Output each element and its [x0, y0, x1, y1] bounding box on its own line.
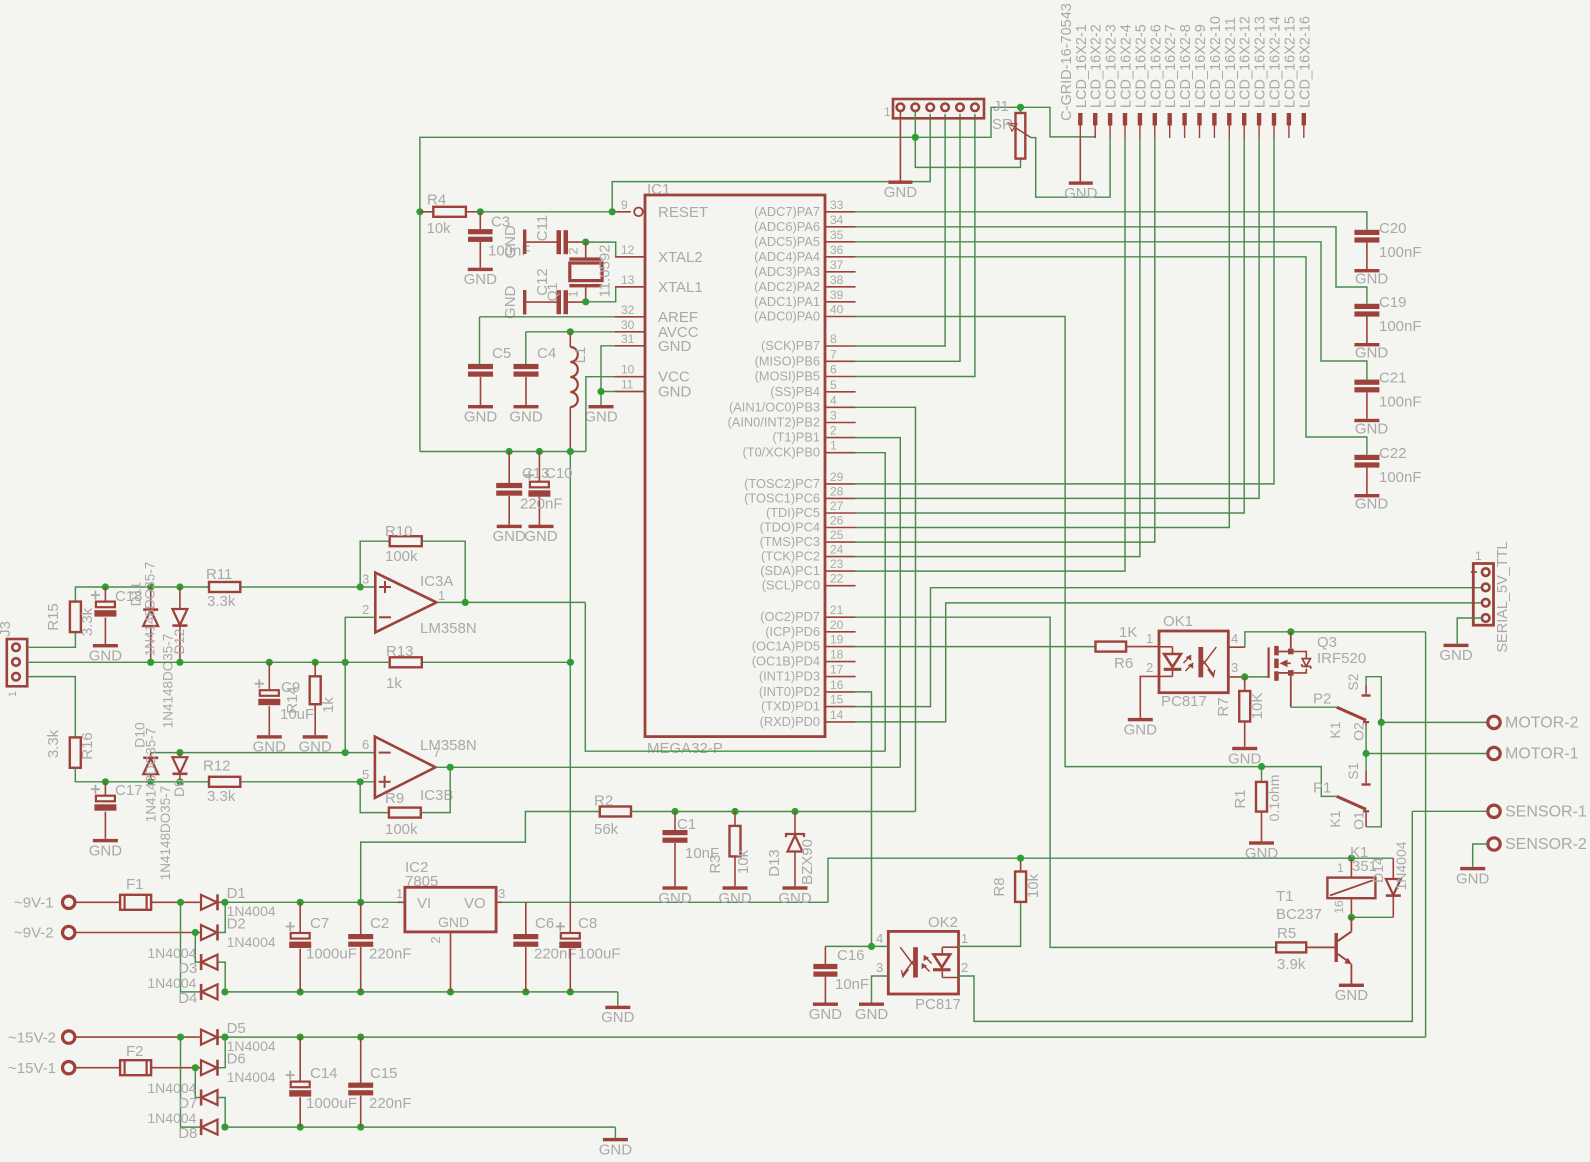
node J1 pin2 junction [912, 134, 919, 141]
svg-text:J3: J3 [0, 621, 14, 637]
svg-text:GND: GND [502, 225, 519, 258]
capacitor C10 (polarized) [520, 452, 573, 525]
node GND pins junction [597, 388, 604, 395]
wire PC6 net to LCD pin13 [856, 138, 1260, 498]
svg-text:3: 3 [1231, 660, 1238, 675]
svg-text:4: 4 [1231, 631, 1238, 646]
capacitor C17 (polarized) [91, 782, 143, 839]
svg-text:PC817: PC817 [915, 996, 961, 1013]
diode D3 [147, 945, 225, 992]
wire PD1 TXD net to serial pin2 [856, 588, 1482, 707]
capacitor C1 [663, 812, 720, 887]
node VCC junction at R4 left [416, 208, 423, 215]
node crystal top junction [582, 239, 589, 246]
svg-text:1: 1 [830, 439, 837, 453]
wire OK2 pin4 row [825, 945, 888, 947]
svg-text:(TXD)PD1: (TXD)PD1 [761, 699, 820, 714]
wire AVCC net [526, 332, 645, 364]
svg-text:27: 27 [830, 499, 844, 513]
capacitor C12 with rotated ground [502, 268, 586, 319]
svg-text:100k: 100k [385, 821, 418, 838]
wire PD5 net to R6 [856, 646, 1096, 648]
svg-text:(SS)PB4: (SS)PB4 [770, 384, 820, 399]
connector J3 input [0, 621, 27, 697]
svg-text:C7: C7 [310, 915, 329, 932]
terminal ~15V-1 [8, 1060, 120, 1077]
svg-text:F1: F1 [126, 876, 144, 893]
svg-text:OK1: OK1 [1163, 613, 1193, 630]
svg-text:R15: R15 [45, 603, 62, 631]
wire AREF net [480, 317, 646, 364]
svg-text:(TOSC1)PC6: (TOSC1)PC6 [744, 490, 820, 505]
node Q3 drain junction [1287, 628, 1294, 635]
wire VCC net top loop (R4 left to J1/SR/LCD pin2) [420, 107, 1095, 212]
label D9 value [158, 786, 173, 881]
wire OK2 pin3 to ground [872, 976, 889, 1003]
svg-text:1k: 1k [386, 675, 402, 692]
svg-text:9: 9 [621, 198, 628, 212]
ground under C17 [89, 839, 123, 860]
svg-text:F2: F2 [126, 1043, 144, 1060]
svg-text:IRF520: IRF520 [1317, 650, 1366, 667]
node mid rail D11 [147, 659, 154, 666]
svg-text:2: 2 [830, 424, 837, 438]
relay coil K1 [1327, 844, 1377, 917]
node bridge2 AC1 [177, 1034, 184, 1041]
svg-text:R2: R2 [594, 793, 613, 810]
wire MOTOR-2 [1381, 721, 1487, 723]
svg-text:LM358N: LM358N [420, 620, 477, 637]
svg-text:LCD_16X2-10: LCD_16X2-10 [1208, 16, 1224, 108]
svg-text:1N4148DO35-7: 1N4148DO35-7 [158, 786, 173, 881]
svg-text:(SCL)PC0: (SCL)PC0 [762, 578, 820, 593]
svg-text:LCD_16X2-3: LCD_16X2-3 [1104, 24, 1120, 108]
svg-text:R7: R7 [1215, 697, 1232, 716]
node mid rail C9 [266, 659, 273, 666]
svg-text:(TDI)PC5: (TDI)PC5 [766, 505, 820, 520]
svg-text:LCD_16X2-2: LCD_16X2-2 [1089, 24, 1105, 108]
node IC3A plus node [0, 0, 1, 1]
svg-text:1: 1 [7, 691, 19, 697]
svg-text:L1: L1 [572, 347, 589, 364]
svg-text:3.9k: 3.9k [1277, 956, 1306, 973]
svg-text:10: 10 [621, 363, 635, 377]
node lower rail D9 [176, 778, 183, 785]
svg-text:GND: GND [658, 338, 692, 355]
svg-text:19: 19 [830, 633, 844, 647]
svg-text:1N4004: 1N4004 [227, 1069, 276, 1085]
svg-text:LCD_16X2-6: LCD_16X2-6 [1148, 24, 1164, 108]
wire ISP RESET branch (J1 pin3 to RESET) [612, 114, 930, 212]
wire VCC decoupling rail [420, 451, 586, 453]
svg-text:(OC2)PD7: (OC2)PD7 [760, 609, 820, 624]
svg-text:T1: T1 [1276, 888, 1294, 905]
svg-text:3.3k: 3.3k [45, 729, 62, 758]
svg-text:1N4004: 1N4004 [147, 945, 196, 961]
svg-text:10k: 10k [735, 849, 752, 874]
node bridge AC1 [177, 899, 184, 906]
node RESET junction at C3 [477, 208, 484, 215]
capacitor C13 [496, 452, 549, 525]
ground under J1 pin1 [884, 181, 918, 202]
svg-text:1N4004: 1N4004 [227, 934, 276, 950]
resistor R12 [203, 758, 240, 805]
svg-text:(RXD)PD0: (RXD)PD0 [760, 714, 820, 729]
ground under LCD pin1 [1064, 181, 1098, 202]
wire F2 to bridge [151, 1067, 201, 1069]
svg-text:LCD_16X2-13: LCD_16X2-13 [1253, 16, 1269, 108]
ground under C22 [1354, 494, 1388, 513]
node R8 top junction [1017, 855, 1024, 862]
svg-text:D5: D5 [227, 1020, 246, 1037]
svg-text:1K: 1K [1119, 624, 1137, 641]
svg-text:GND: GND [718, 890, 752, 907]
svg-text:SERIAL_5V_TTL: SERIAL_5V_TTL [1495, 541, 1511, 652]
potentiometer SR [992, 107, 1031, 158]
svg-text:(TCK)PC2: (TCK)PC2 [761, 549, 820, 564]
wire VCC rail down to 5V net at C8 [569, 452, 571, 903]
node IC3A output junction [462, 599, 469, 606]
wire PA7 net to C20 [856, 212, 1367, 230]
node rail C13 [506, 448, 513, 455]
capacitor C2 [348, 902, 411, 992]
svg-text:GND: GND [509, 409, 543, 426]
terminal SENSOR-2 [1473, 836, 1587, 867]
svg-text:8: 8 [830, 332, 837, 346]
svg-text:BZX90: BZX90 [799, 839, 816, 885]
svg-text:(ADC3)PA3: (ADC3)PA3 [754, 264, 820, 279]
svg-text:O1: O1 [1350, 811, 1366, 830]
wire S2 to crossover [1366, 677, 1381, 827]
svg-text:1k: 1k [320, 697, 337, 713]
wire 5V rail [502, 858, 1351, 902]
ground under C19 [1354, 343, 1388, 362]
capacitor C18 (polarized) [91, 587, 143, 644]
svg-text:GND: GND [1245, 845, 1279, 862]
svg-text:LCD_16X2-16: LCD_16X2-16 [1297, 16, 1313, 108]
svg-text:34: 34 [830, 213, 844, 227]
svg-text:(ADC0)PA0: (ADC0)PA0 [754, 309, 820, 324]
svg-text:(TDO)PC4: (TDO)PC4 [760, 520, 820, 535]
diode D14 [1370, 841, 1409, 917]
wire PB7 net to J1 SCK [856, 114, 946, 346]
svg-text:7805: 7805 [405, 873, 438, 890]
resistor R5 [1276, 925, 1306, 973]
wire bridge AC2 vertical [195, 933, 200, 963]
svg-text:3.3k: 3.3k [207, 788, 236, 805]
svg-text:GND: GND [1228, 750, 1262, 767]
ground under C13 [493, 525, 527, 546]
relay contact K1 upper (P2/S2/O2) [1313, 673, 1371, 741]
svg-text:(ADC6)PA6: (ADC6)PA6 [754, 219, 820, 234]
svg-text:28: 28 [830, 484, 844, 498]
svg-text:C8: C8 [578, 915, 597, 932]
resistor R6 [1096, 624, 1160, 672]
svg-text:C14: C14 [310, 1065, 338, 1082]
resistor R7 [1215, 677, 1266, 747]
wire J1 pin2 net with SR bottom [915, 111, 1020, 167]
svg-text:C22: C22 [1379, 445, 1407, 462]
svg-text:3: 3 [362, 572, 369, 587]
svg-text:25: 25 [830, 528, 844, 542]
svg-text:14: 14 [830, 708, 844, 722]
svg-text:(ADC5)PA5: (ADC5)PA5 [754, 234, 820, 249]
svg-text:6: 6 [362, 737, 369, 752]
wire XTAL1 net [586, 287, 645, 302]
wire LCD pin1 to ground [1079, 138, 1081, 181]
capacitor C20 [1354, 220, 1421, 269]
svg-text:39: 39 [830, 288, 844, 302]
diode D2 [201, 902, 276, 950]
fuse F2 [120, 1043, 151, 1075]
svg-text:100nF: 100nF [1379, 318, 1422, 335]
svg-text:GND: GND [658, 384, 692, 401]
svg-text:LM358N: LM358N [420, 737, 477, 754]
wire PC3 net to LCD pin6 [856, 138, 1155, 542]
capacitor C19 [1354, 294, 1421, 343]
ground main 9V rail [601, 1006, 635, 1026]
resistor R11 [206, 566, 240, 610]
node gnd rail C2 [357, 988, 364, 995]
svg-text:R16: R16 [79, 732, 96, 760]
wire serial pin4 to ground [1457, 618, 1481, 644]
node gnd rail C7 [297, 988, 304, 995]
wire OK1 pin3 to gate [1228, 676, 1267, 678]
svg-text:6: 6 [830, 363, 837, 377]
svg-text:GND: GND [809, 1006, 843, 1023]
ground under C16 [809, 1003, 843, 1024]
svg-text:1: 1 [438, 588, 445, 603]
wire PB6 net to J1 MISO [856, 114, 960, 361]
label D10 value [144, 728, 159, 823]
capacitor C9 (polarized) [255, 662, 314, 735]
label C-GRID-16-70543 [1059, 3, 1075, 121]
svg-text:BC237: BC237 [1276, 906, 1322, 923]
wire PC1 net to LCD pin4 [856, 138, 1125, 571]
terminal MOTOR-1 [1488, 746, 1579, 763]
svg-text:11.0592: 11.0592 [597, 244, 614, 297]
svg-text:GND: GND [855, 1006, 889, 1023]
wire J1 pin1 to ground [899, 111, 901, 181]
svg-text:R8: R8 [991, 877, 1008, 896]
wire RESET net (R4 right to IC1 pin 9) [480, 211, 631, 213]
node SR top junction [1017, 104, 1024, 111]
wire PB1 net from IC3B output [856, 438, 901, 768]
node crystal bottom junction [582, 298, 589, 305]
node mid rail op-amp inputs [342, 659, 349, 666]
wire PD0 RXD net to serial pin3 [856, 603, 1482, 722]
node motor2 junction [1378, 719, 1385, 726]
svg-text:1000uF: 1000uF [306, 1095, 357, 1112]
svg-text:C15: C15 [370, 1065, 398, 1082]
svg-text:(ADC1)PA1: (ADC1)PA1 [754, 294, 820, 309]
node 15V rail C15 [357, 1034, 364, 1041]
node motor1 junction [1363, 750, 1370, 757]
wire D10/D9 top rail [151, 752, 375, 754]
capacitor C16 [813, 946, 869, 1002]
labels LCD_16X2 pin names [1074, 16, 1314, 108]
node plus rail C7 [297, 899, 304, 906]
resistor R3 [707, 812, 752, 887]
svg-text:GND: GND [502, 285, 519, 319]
wire R2 net from unregulated rail [361, 812, 600, 903]
svg-text:2: 2 [428, 936, 443, 943]
svg-text:R13: R13 [386, 643, 414, 660]
inductor L1 [570, 332, 589, 452]
node lower rail C17 [102, 778, 109, 785]
transistor T1 BC237 [1276, 888, 1352, 984]
svg-text:S1: S1 [1345, 762, 1361, 779]
svg-text:LCD_16X2-15: LCD_16X2-15 [1282, 16, 1298, 108]
label D12 value [161, 634, 176, 729]
svg-text:100nF: 100nF [1379, 394, 1422, 411]
svg-text:VO: VO [464, 895, 486, 912]
svg-text:13: 13 [621, 273, 635, 287]
resistor R14 [284, 662, 337, 735]
node gnd rail C8 [567, 988, 574, 995]
capacitor C22 [1354, 445, 1421, 494]
svg-text:J1: J1 [993, 98, 1009, 115]
svg-text:0.1ohm: 0.1ohm [1266, 775, 1282, 822]
svg-text:C20: C20 [1379, 220, 1407, 237]
node bridge AC2 [192, 929, 199, 936]
svg-text:(OC1B)PD4: (OC1B)PD4 [752, 654, 820, 669]
wire PB0 net from IC3A output [856, 453, 886, 752]
node OK2 pin4 junction [868, 943, 875, 950]
wire PC4 net to LCD pin11 [856, 138, 1230, 528]
svg-text:10K: 10K [1249, 693, 1266, 720]
wire PB5 net to J1 MOSI [856, 114, 975, 377]
resistor R15 [45, 602, 96, 637]
svg-text:10k: 10k [427, 220, 452, 237]
wire VCC left vertical down to decoupling rail [419, 212, 421, 452]
svg-text:2: 2 [961, 960, 968, 975]
ground under C3 [464, 268, 498, 289]
svg-text:LCD_16X2-7: LCD_16X2-7 [1163, 24, 1179, 108]
ground under R1 [1245, 841, 1279, 862]
svg-text:17: 17 [830, 663, 844, 677]
svg-text:MEGA32-P: MEGA32-P [647, 740, 723, 757]
svg-text:20: 20 [830, 618, 844, 632]
ground under R3 [718, 886, 752, 907]
svg-text:MOTOR-2: MOTOR-2 [1505, 715, 1579, 732]
svg-text:3: 3 [876, 960, 883, 975]
svg-text:1: 1 [1475, 549, 1482, 563]
svg-text:GND: GND [1335, 987, 1369, 1004]
terminal SENSOR-1 [1488, 804, 1587, 821]
svg-text:(ADC2)PA2: (ADC2)PA2 [754, 279, 820, 294]
svg-text:MOTOR-1: MOTOR-1 [1505, 746, 1579, 763]
wire PA5 net to C21 [856, 242, 1367, 380]
wire bridge AC1 vertical [181, 902, 200, 992]
svg-text:GND: GND [1355, 420, 1389, 437]
wire PA0 net to current sense R1 [856, 317, 1337, 797]
ground under OK2 pin3 [855, 1003, 889, 1024]
svg-text:1: 1 [396, 886, 403, 901]
node bridge2 plus [221, 1034, 228, 1041]
node op-amp A plus junction [357, 583, 364, 590]
svg-text:5: 5 [830, 378, 837, 392]
svg-text:P1: P1 [1313, 780, 1331, 797]
svg-text:P2: P2 [1313, 691, 1331, 708]
resistor R8 [991, 858, 1042, 902]
svg-text:GND: GND [1456, 870, 1490, 887]
svg-text:C1: C1 [677, 816, 696, 833]
svg-text:R4: R4 [427, 192, 446, 209]
node divider D13 [791, 808, 798, 815]
node lower rail D10 [147, 778, 154, 785]
svg-text:(MOSI)PB5: (MOSI)PB5 [755, 369, 820, 384]
wire 15V rail to relay [225, 632, 1426, 1037]
svg-text:3: 3 [498, 886, 505, 901]
svg-text:1N4004: 1N4004 [147, 1110, 196, 1126]
svg-text:C21: C21 [1379, 370, 1407, 387]
svg-text:IC3B: IC3B [420, 787, 453, 804]
svg-text:21: 21 [830, 603, 844, 617]
svg-text:56k: 56k [594, 821, 619, 838]
node T1 collector junction [1348, 914, 1355, 921]
ground under R7 [1228, 747, 1262, 768]
svg-text:26: 26 [830, 514, 844, 528]
node bridge2 AC2 [192, 1064, 199, 1071]
svg-text:C-GRID-16-70543: C-GRID-16-70543 [1059, 3, 1075, 121]
crystal Q1 [566, 242, 614, 302]
svg-text:12: 12 [621, 243, 635, 257]
wire drain net to 15V rail [1291, 631, 1426, 633]
wire PC2 net to LCD pin5 [856, 138, 1140, 557]
svg-text:220nF: 220nF [520, 496, 563, 513]
svg-text:GND: GND [493, 528, 527, 545]
wire ground rail 9V [225, 992, 618, 1006]
svg-text:(T0/XCK)PB0: (T0/XCK)PB0 [742, 445, 820, 460]
wire PA6 net to C19 [856, 227, 1367, 304]
node rail D11 [147, 583, 154, 590]
wire MOTOR-1 [1366, 753, 1487, 755]
diode D5 [201, 1020, 276, 1054]
node IC3B plus node [357, 778, 364, 785]
svg-text:10nF: 10nF [835, 976, 869, 993]
svg-text:K1: K1 [1327, 721, 1343, 738]
wire F1 to bridge [151, 901, 200, 903]
svg-text:16: 16 [830, 678, 844, 692]
svg-text:(AIN0/INT2)PB2: (AIN0/INT2)PB2 [728, 415, 820, 430]
connector LCD pin row [1078, 113, 1306, 138]
svg-text:D1: D1 [227, 885, 246, 902]
svg-text:1: 1 [1337, 861, 1344, 875]
ground under SENSOR-2 [1456, 867, 1490, 888]
node IC3B output junction [447, 764, 454, 771]
wire IC3A minus input to mid rail [345, 617, 375, 752]
svg-text:LCD_16X2-9: LCD_16X2-9 [1193, 24, 1209, 108]
svg-text:GND: GND [778, 890, 812, 907]
svg-text:C2: C2 [370, 915, 389, 932]
svg-text:GND: GND [599, 1141, 633, 1158]
node bridge minus [221, 988, 228, 995]
ground under D13 [778, 886, 812, 907]
ground main 15V rail [599, 1138, 633, 1159]
wire PC5 net to LCD pin12 [856, 138, 1245, 513]
optocoupler OK2 PC817 [876, 914, 968, 1013]
terminal ~9V-1 [14, 895, 120, 912]
svg-text:GND: GND [1439, 647, 1473, 664]
terminal ~9V-2 [14, 925, 201, 942]
svg-text:GND: GND [1124, 721, 1158, 738]
svg-text:S2: S2 [1345, 673, 1361, 690]
svg-text:GND: GND [524, 528, 558, 545]
svg-text:18: 18 [830, 648, 844, 662]
ground under C18 [89, 644, 123, 665]
wire ground rail 15V [225, 1127, 616, 1138]
